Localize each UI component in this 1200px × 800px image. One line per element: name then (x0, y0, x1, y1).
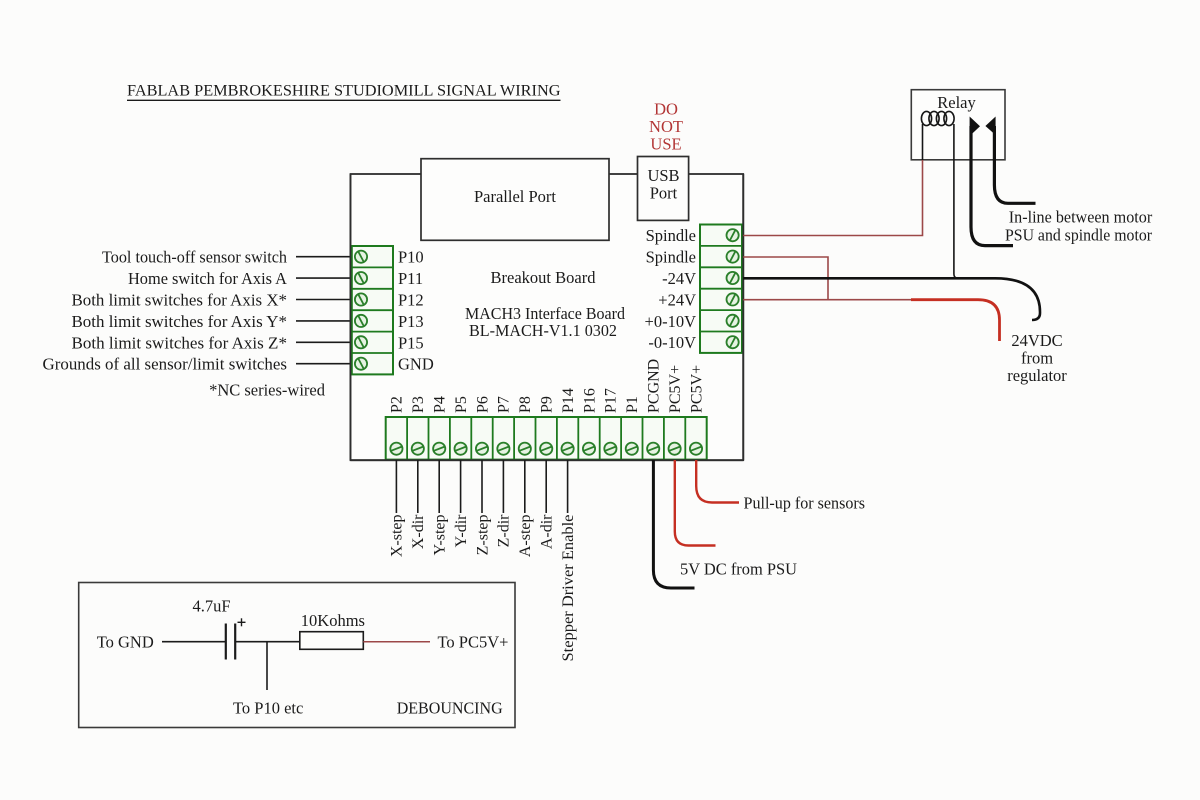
svg-text:P17: P17 (603, 388, 620, 413)
wire: board bottom edge (351, 459, 744, 461)
capacitor polarity plus (238, 618, 246, 626)
screw terminal P3 (bottom col 2) (412, 443, 424, 455)
svg-text:P3: P3 (410, 396, 427, 413)
screw terminal P12 (355, 293, 367, 305)
svg-text:P8: P8 (517, 396, 534, 413)
wire from P4 down (438, 460, 440, 513)
screw terminal PC5V+ (bottom col 14) (669, 443, 681, 455)
svg-text:DEBOUNCING: DEBOUNCING (397, 699, 503, 718)
screw terminal P13 (355, 315, 367, 327)
wire: +24V thick red to 24VDC regulator (911, 300, 1000, 341)
svg-text:*NC series-wired: *NC series-wired (209, 381, 326, 400)
wire from P3 down (417, 460, 419, 513)
svg-text:FABLAB PEMBROKESHIRE STUDIOMIL: FABLAB PEMBROKESHIRE STUDIOMILL SIGNAL W… (127, 81, 561, 100)
svg-text:P15: P15 (398, 333, 424, 352)
wire: capacitor to resistor (235, 641, 300, 643)
svg-text:P14: P14 (560, 388, 577, 413)
svg-text:5V DC from PSU: 5V DC from PSU (680, 559, 797, 578)
screw terminal GND (355, 358, 367, 370)
wire: Spindle row1 to relay coil (dark red) (743, 160, 922, 236)
screw terminal -24V (right row 3) (727, 272, 739, 284)
svg-text:USE: USE (650, 134, 681, 153)
label: In-line between motor PSU and spindle motor (1005, 208, 1153, 245)
svg-text:A-dir: A-dir (539, 514, 556, 549)
wire from P5 down (460, 460, 462, 513)
svg-text:regulator: regulator (1007, 366, 1067, 385)
terminal block TB2 (right outputs) (700, 225, 742, 353)
title: FABLAB PEMBROKESHIRE STUDIOMILL SIGNAL WIRING (127, 81, 561, 101)
screw terminal PC5V+ (bottom col 15) (690, 443, 702, 455)
screw terminal -0-10V (right row 6) (727, 336, 739, 348)
wire stub to P11 (296, 277, 351, 279)
svg-text:Both limit switches for Axis X: Both limit switches for Axis X* (72, 291, 288, 310)
screw terminal Spindle (right row 2) (727, 251, 739, 263)
svg-text:PC5V+: PC5V+ (688, 365, 705, 413)
wire stub to P10 (296, 256, 351, 258)
svg-text:X-step: X-step (389, 515, 406, 558)
screw terminal PCGND (bottom col 13) (647, 443, 659, 455)
svg-text:USB: USB (647, 166, 679, 185)
relay K1 box (911, 90, 1005, 160)
svg-text:PC5V+: PC5V+ (667, 365, 684, 413)
svg-text:P16: P16 (581, 388, 598, 413)
svg-text:Home switch for Axis A: Home switch for Axis A (128, 269, 287, 288)
wire: Spindle row2 branch (dark red) (743, 257, 828, 300)
wire: +24V thin dark red (743, 299, 913, 301)
screw terminal P2 (bottom col 1) (390, 443, 402, 455)
warning label DO NOT USE (for USB port) (649, 99, 683, 153)
wire from P9 down (545, 460, 547, 513)
svg-text:24VDC: 24VDC (1011, 331, 1062, 350)
wire stub to GND (296, 363, 351, 365)
wire: junction down to To P10 etc (266, 642, 268, 690)
svg-text:Both limit switches for Axis Z: Both limit switches for Axis Z* (72, 333, 288, 352)
svg-text:P7: P7 (496, 396, 513, 413)
svg-text:To PC5V+: To PC5V+ (438, 633, 509, 652)
svg-text:P10: P10 (398, 248, 424, 267)
wire stub to P15 (296, 341, 351, 343)
screw terminal P8 (bottom col 7) (519, 443, 531, 455)
capacitor C1 4.7uF (226, 624, 235, 660)
svg-text:Breakout Board: Breakout Board (491, 268, 597, 287)
wire: coil right lead down to -24V line (954, 124, 958, 278)
svg-text:P4: P4 (432, 396, 449, 413)
svg-text:Parallel Port: Parallel Port (474, 187, 556, 206)
wire: left contact lead, in-line motor wire (lower hook) (971, 126, 1013, 246)
svg-text:+0-10V: +0-10V (645, 312, 697, 331)
wire: resistor to PC5V+ (red) (363, 641, 430, 643)
wire from P14 down (567, 460, 569, 513)
screw terminal P4 (bottom col 3) (433, 443, 445, 455)
relay contact: right triangle (985, 117, 995, 136)
svg-text:Both limit switches for Axis Y: Both limit switches for Axis Y* (72, 312, 288, 331)
svg-text:from: from (1021, 349, 1053, 368)
wire from P6 down (481, 460, 483, 513)
svg-text:In-line between motor: In-line between motor (1009, 208, 1153, 227)
wire from P7 down (502, 460, 504, 513)
svg-text:P6: P6 (474, 396, 491, 413)
svg-text:Y-step: Y-step (432, 515, 449, 556)
screw terminal P9 (bottom col 8) (540, 443, 552, 455)
svg-text:To P10 etc: To P10 etc (233, 699, 303, 718)
screw terminal P6 (bottom col 5) (476, 443, 488, 455)
parallel port connector J1 (421, 159, 609, 241)
wire: -24V black to 24VDC regulator (743, 278, 1040, 320)
wire PC5V+ (second) to pull-up (696, 460, 739, 503)
svg-text:Relay: Relay (937, 93, 976, 112)
svg-text:P13: P13 (398, 312, 424, 331)
svg-text:P2: P2 (389, 396, 406, 413)
screw terminal P17 (bottom col 11) (604, 443, 616, 455)
svg-text:-0-10V: -0-10V (648, 333, 696, 352)
svg-text:Spindle: Spindle (646, 248, 696, 267)
svg-text:P11: P11 (398, 269, 423, 288)
wire: coil left lead (922, 124, 924, 160)
svg-text:A-step: A-step (517, 515, 534, 558)
svg-text:NOT: NOT (649, 117, 683, 136)
resistor R1 10Kohms (300, 632, 364, 650)
label: 24VDC from regulator (1007, 331, 1067, 385)
wire: board right edge (742, 174, 744, 460)
svg-text:Z-step: Z-step (474, 515, 491, 556)
svg-text:10Kohms: 10Kohms (301, 611, 365, 630)
svg-text:Grounds of all sensor/limit sw: Grounds of all sensor/limit switches (43, 355, 288, 374)
screw terminal P11 (355, 272, 367, 284)
svg-text:P12: P12 (398, 291, 424, 310)
wire stub to P12 (296, 299, 351, 301)
screw terminal P15 (355, 336, 367, 348)
screw terminal +0-10V (right row 5) (727, 315, 739, 327)
wire: board left edge (349, 174, 351, 460)
svg-text:Spindle: Spindle (646, 226, 696, 245)
svg-text:Port: Port (650, 184, 678, 203)
screw terminal P5 (bottom col 4) (455, 443, 467, 455)
svg-text:DO: DO (654, 99, 678, 118)
svg-text:P9: P9 (539, 396, 556, 413)
relay contact: left triangle (970, 117, 980, 137)
terminal strip TB3 (bottom, parallel port pins) (386, 417, 707, 460)
wire: To GND to capacitor (162, 641, 226, 643)
wire: right contact lead, in-line motor wire (upper hook) (994, 126, 1035, 203)
svg-text:+24V: +24V (658, 290, 696, 309)
screw terminal P16 (bottom col 10) (583, 443, 595, 455)
screw terminal P10 (355, 251, 367, 263)
wire PC5V+ (first) (675, 460, 716, 546)
svg-text:Stepper Driver Enable: Stepper Driver Enable (560, 515, 577, 662)
wire from P8 down (524, 460, 526, 513)
svg-text:PSU and spindle motor: PSU and spindle motor (1005, 226, 1152, 245)
wire from P2 down (395, 460, 397, 513)
screw terminal Spindle (right row 1) (727, 229, 739, 241)
breakout board outline U1 (351, 174, 744, 460)
svg-text:P1: P1 (624, 396, 641, 413)
svg-text:BL-MACH-V1.1 0302: BL-MACH-V1.1 0302 (469, 321, 617, 340)
screw terminal P1 (bottom col 12) (626, 443, 638, 455)
svg-text:X-dir: X-dir (410, 514, 427, 549)
debouncing circuit box (79, 583, 515, 728)
svg-text:PCGND: PCGND (646, 359, 663, 413)
svg-text:-24V: -24V (662, 269, 696, 288)
svg-text:To GND: To GND (97, 633, 154, 652)
svg-text:Pull-up for sensors: Pull-up for sensors (744, 494, 866, 513)
screw terminal P7 (bottom col 6) (497, 443, 509, 455)
terminal block TB1 (left inputs) (352, 246, 393, 374)
svg-text:4.7uF: 4.7uF (193, 597, 231, 616)
screw terminal +24V (right row 4) (727, 293, 739, 305)
svg-text:GND: GND (398, 355, 434, 374)
svg-text:Z-dir: Z-dir (496, 514, 513, 548)
wire stub to P13 (296, 320, 351, 322)
relay coil L1 (921, 111, 954, 125)
svg-text:Tool touch-off sensor switch: Tool touch-off sensor switch (102, 248, 288, 267)
USB port connector J2 (638, 157, 689, 221)
svg-text:P5: P5 (453, 396, 470, 413)
wire PCGND to 5V DC from PSU (653, 460, 694, 588)
screw terminal P14 (bottom col 9) (562, 443, 574, 455)
svg-text:Y-dir: Y-dir (453, 514, 470, 548)
